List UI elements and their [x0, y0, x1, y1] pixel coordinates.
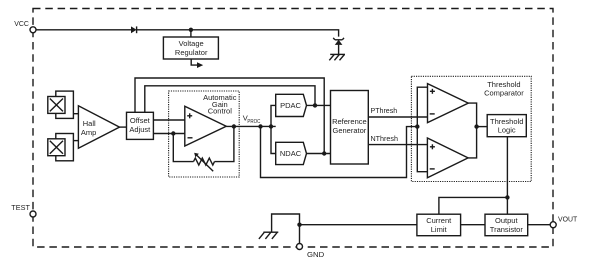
comparator upper	[428, 84, 469, 123]
svg-text:NThresh: NThresh	[371, 134, 399, 143]
svg-text:Regulator: Regulator	[175, 48, 208, 57]
wire AGC feedback loop right	[215, 127, 234, 162]
wire PThresh	[368, 116, 427, 118]
svg-text:Comparator: Comparator	[484, 88, 524, 97]
wire AGC feedback loop	[173, 134, 193, 162]
voltage regulator U-REG	[163, 37, 218, 59]
svg-text:Hall: Hall	[83, 119, 96, 128]
wire to threshold logic	[477, 126, 488, 128]
junction dot logic output branch	[505, 195, 509, 199]
wire hall upper to amp	[73, 113, 78, 115]
ground (chassis) bottom	[259, 232, 278, 239]
svg-text:Generator: Generator	[333, 126, 367, 135]
hall plate lower	[48, 134, 74, 161]
junction dot at voltage regulator tap	[189, 28, 193, 32]
wire AGC output / VPROC node	[226, 125, 276, 127]
svg-text:Output: Output	[495, 216, 518, 225]
wire VCC rail right segment	[137, 30, 339, 37]
wire comparator outputs join	[468, 103, 477, 158]
svg-text:Voltage: Voltage	[179, 39, 204, 48]
wire NDAC output	[307, 153, 331, 155]
wire VPROC comparator rail	[261, 127, 418, 178]
wire NThresh	[368, 144, 427, 146]
threshold logic block	[487, 115, 526, 137]
junction dot gnd node	[297, 223, 301, 227]
svg-text:Amp: Amp	[81, 128, 96, 137]
svg-text:Reference: Reference	[332, 117, 367, 126]
svg-text:PROC: PROC	[247, 119, 260, 125]
svg-text:Transistor: Transistor	[490, 225, 524, 234]
junction dot VPROC rail tap	[258, 124, 262, 128]
wire VPROC to comparator inputs	[417, 87, 427, 126]
svg-text:Offset: Offset	[130, 116, 151, 125]
svg-text:Threshold: Threshold	[490, 117, 523, 126]
wire PDAC feedback (inner loop)	[145, 86, 315, 113]
junction dot NDAC output	[322, 151, 326, 155]
node VPROC label	[243, 113, 261, 125]
wire PDAC output	[307, 104, 331, 106]
svg-text:VCC: VCC	[14, 19, 29, 28]
wire offset adjust to AGC + input	[153, 119, 185, 121]
automatic gain control dotted box	[169, 91, 240, 177]
diode (series supply diode)	[131, 26, 137, 33]
output transistor block	[485, 214, 528, 236]
wire hall amp to offset adjust	[120, 126, 127, 128]
op-amp hall amp	[78, 106, 119, 148]
svg-text:Limit: Limit	[431, 225, 448, 234]
junction dot AGC - input	[171, 131, 175, 135]
wire regulator tap	[190, 30, 192, 37]
svg-text:GND: GND	[307, 250, 324, 259]
TEST pin terminal	[11, 203, 36, 217]
wire VPROC to NDAC input	[271, 127, 276, 154]
resistor AGC gain (variable)	[194, 153, 215, 172]
wire VCC rail left segment	[36, 29, 131, 31]
offset adjust block	[127, 112, 154, 139]
current limit block	[417, 214, 461, 236]
svg-text:Control: Control	[208, 107, 233, 116]
zener diode (supply clamp)	[333, 38, 344, 45]
wire hall lower to amp	[73, 140, 78, 142]
junction dot comparator output	[474, 124, 478, 128]
wire gnd node riser	[272, 214, 300, 244]
svg-text:Adjust: Adjust	[129, 125, 151, 134]
wire offset adjust to AGC - input	[153, 133, 185, 135]
svg-text:NDAC: NDAC	[280, 149, 302, 158]
junction dot DAC splitter	[269, 124, 273, 128]
VOUT pin terminal	[550, 214, 578, 227]
junction dot PDAC output	[313, 103, 317, 107]
wire gnd rail to current limit	[300, 224, 417, 226]
svg-text:Logic: Logic	[498, 126, 516, 135]
NDAC block	[276, 142, 307, 164]
wire NDAC feedback (outer loop)	[135, 78, 324, 154]
wire current limit to output transistor	[461, 224, 485, 226]
junction dot AGC output	[232, 124, 236, 128]
wire zener to ground	[338, 45, 340, 55]
IC package boundary (dashed)	[33, 9, 553, 248]
svg-text:TEST: TEST	[11, 203, 30, 212]
reference generator block	[331, 91, 369, 165]
threshold comparator dotted box	[411, 76, 531, 181]
op-amp AGC amplifier	[185, 106, 226, 146]
wire regulator output arrow	[191, 59, 203, 68]
svg-text:PThresh: PThresh	[371, 106, 398, 115]
VCC pin terminal	[14, 19, 36, 33]
ground (chassis) top right	[329, 54, 345, 60]
GND pin terminal	[297, 244, 325, 259]
svg-text:PDAC: PDAC	[280, 101, 301, 110]
wire branch to current limit	[439, 197, 508, 214]
hall plate upper	[48, 91, 74, 118]
svg-text:Current: Current	[426, 216, 452, 225]
wire threshold logic output down	[506, 137, 508, 215]
junction dot comparator input node	[415, 124, 419, 128]
PDAC block	[276, 94, 307, 116]
wire output transistor to VOUT	[528, 224, 551, 226]
svg-text:VOUT: VOUT	[558, 214, 578, 223]
wire VPROC to PDAC input	[271, 105, 276, 126]
comparator lower	[427, 138, 468, 178]
